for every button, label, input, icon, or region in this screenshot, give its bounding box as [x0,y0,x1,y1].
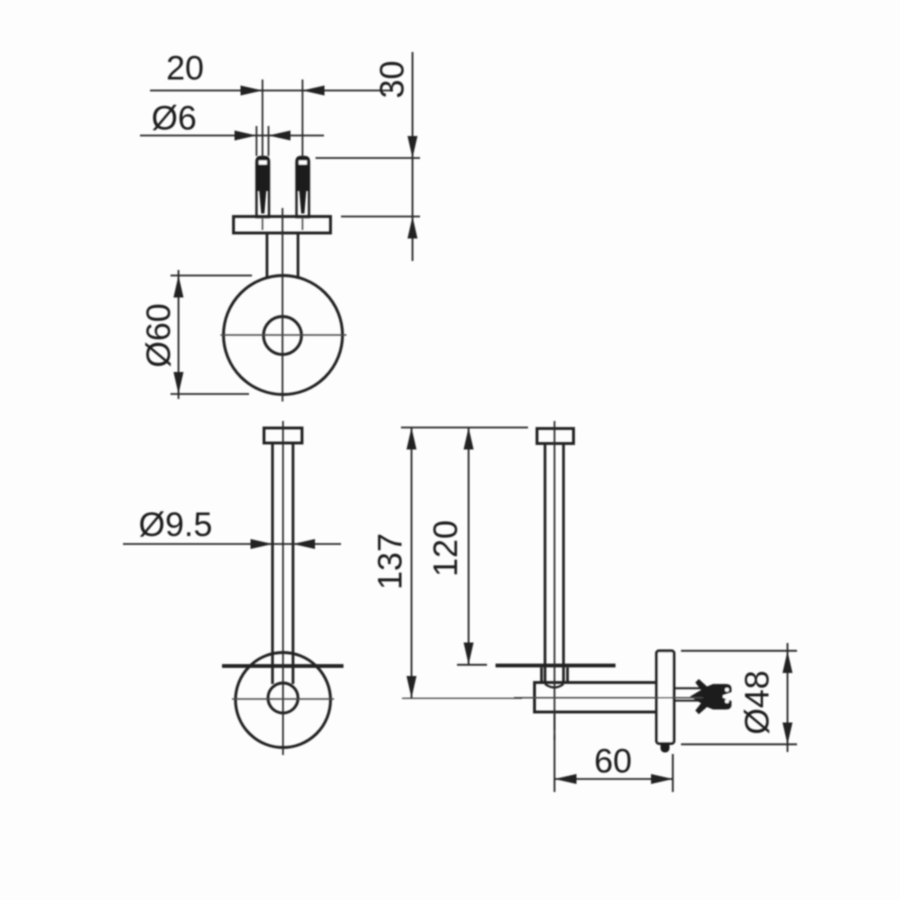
stem right edge [297,233,300,277]
dim Ø60 ext top [171,275,253,277]
top view horizontal centerline [221,334,347,336]
roll disc outer circle [224,276,343,395]
dim Ø60 ext bottom [171,393,250,395]
arrows dim Ø60 [174,276,184,298]
roll disc inner circle [264,317,302,355]
svg-text:20: 20 [166,50,204,88]
rod side left edge [544,444,547,685]
screw left edge extension lines [256,126,258,156]
arrows dim Ø9.5 [251,539,273,549]
dim Ø48 line [787,643,789,752]
dim 60 ext right [672,754,674,792]
screw right thread fill [297,157,310,191]
svg-text:60: 60 [594,743,632,781]
arrows dim 30 [408,136,418,158]
dim 120 line [468,428,470,665]
flange circle front [236,653,331,748]
dim 137/120 ext top [401,427,528,429]
dim 30 line [412,52,414,261]
svg-text:Ø48: Ø48 [739,670,777,734]
stem left edge [266,233,269,277]
arrows dim 137 [407,428,417,450]
wall plate (side view) [657,651,675,744]
cap side [537,429,574,444]
anchor screw shank top [674,687,702,689]
dim Ø48 ext top [681,650,797,652]
arrows dim Ø6 [235,131,257,141]
dim 60 ext left [554,714,556,792]
roll rest thick line side [496,664,616,668]
front view horizontal centerline [232,698,334,700]
side view vertical centerline [554,421,556,730]
dim 137 ext bottom [402,697,522,699]
socket right edge [566,668,569,683]
dim Ø60 line [178,270,180,399]
screw left thread fill [257,157,270,191]
svg-text:30: 30 [374,61,412,99]
svg-text:120: 120 [427,520,465,577]
set screw below plate [661,744,670,753]
dim 120 ext bottom [457,664,487,666]
rod front right edge [292,443,295,684]
dim 30 ext top [316,157,421,159]
svg-text:Ø6: Ø6 [151,100,196,138]
arm / screw horizontal centerline [514,697,703,699]
wall plate (top view) [234,217,331,234]
dim 20 line [150,90,393,92]
centerline screw left [262,80,264,158]
svg-text:Ø9.5: Ø9.5 [139,506,213,544]
dim 60 line [555,778,674,780]
arrows dim 20 [241,86,263,96]
screw right slot [299,160,307,164]
dim 30 ext bottom [341,216,420,218]
arrows dim Ø48 [783,651,793,673]
wall anchor glyph [690,679,732,714]
screw left slot [259,160,267,164]
arrows dim 120 [464,428,474,450]
cap front [264,428,302,443]
arm end circle front [268,683,298,713]
arm outline [535,683,658,713]
socket left edge [540,668,543,683]
dim 137 line [411,428,413,699]
rod side right edge [562,444,565,685]
rod cup arc [545,684,564,688]
svg-text:137: 137 [372,533,410,590]
anchor screw shank bottom [674,700,702,702]
roll rest thick line front [222,664,344,668]
top view vertical centerline [282,208,284,402]
svg-text:Ø60: Ø60 [140,303,178,367]
centerline screw right [302,80,304,158]
screw left lower wedge [259,191,266,214]
anchor white dots [725,688,729,692]
dim Ø6 line [140,135,324,137]
screw right lower wedge [299,191,306,214]
dim Ø48 ext bottom [681,743,797,745]
screw left outline [257,157,270,217]
front view vertical centerline [282,421,284,755]
dim Ø9.5 line [123,543,341,545]
screw right outline [297,157,310,217]
arrows dim 60 [555,774,577,784]
rod front left edge [271,443,274,684]
